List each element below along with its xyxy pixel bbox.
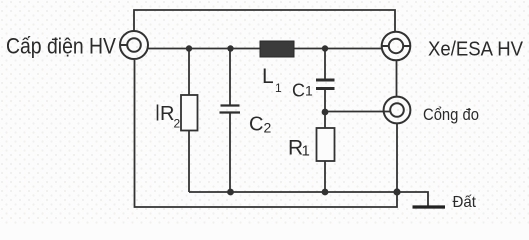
capacitor C1 xyxy=(316,80,335,89)
resistor R2 xyxy=(181,95,198,131)
wire R2 bottom vertical xyxy=(188,131,190,193)
wire C1 branch vertical xyxy=(324,49,326,80)
capacitor C2 xyxy=(220,106,241,113)
svg-text:1: 1 xyxy=(275,81,282,95)
junction node on main wire at C1 xyxy=(322,45,328,51)
wire bottom rail xyxy=(189,192,428,206)
svg-text:R: R xyxy=(160,103,174,125)
wire C1 to node vertical xyxy=(324,90,326,128)
resistor R1 xyxy=(317,128,335,161)
wire main horizontal xyxy=(149,48,382,50)
svg-text:Đất: Đất xyxy=(453,194,477,211)
connector J2 Xe/ESA HV xyxy=(382,32,411,61)
svg-text:Cấp điện HV: Cấp điện HV xyxy=(6,34,116,59)
label R1 xyxy=(288,137,310,160)
svg-text:Cổng đo: Cổng đo xyxy=(423,105,479,124)
junction node on main wire at R2 xyxy=(186,45,192,51)
wire outer ground return xyxy=(135,60,398,207)
svg-text:Xe/ESA HV: Xe/ESA HV xyxy=(428,39,524,61)
inductor L1 xyxy=(260,41,294,57)
svg-text:1: 1 xyxy=(305,83,313,99)
label L1 xyxy=(262,65,282,95)
wire R1 bottom vertical xyxy=(324,161,326,192)
svg-text:C: C xyxy=(292,81,305,101)
junction node bottom rail at port xyxy=(393,188,400,195)
svg-text:1: 1 xyxy=(302,143,310,160)
label R2 xyxy=(158,103,181,131)
label C2 xyxy=(249,114,272,136)
wire between connectors vertical xyxy=(396,61,398,97)
connector J3 Cong do xyxy=(384,97,411,124)
wire top rail xyxy=(134,10,395,32)
svg-text:C: C xyxy=(249,114,263,136)
junction node bottom rail at R1 xyxy=(322,189,329,196)
junction node on main wire at C2 xyxy=(227,45,233,51)
wire C2 bottom vertical xyxy=(229,113,231,192)
wire measuring port down vertical xyxy=(396,124,398,193)
connector J1 Cap dien HV xyxy=(120,31,148,59)
svg-text:L: L xyxy=(262,65,274,88)
svg-text:2: 2 xyxy=(264,120,272,136)
junction node bottom rail at C2 xyxy=(227,189,234,196)
wire R2 branch vertical xyxy=(188,49,190,96)
junction node C1-R1-port xyxy=(322,109,329,116)
svg-text:2: 2 xyxy=(174,117,181,131)
ground symbol xyxy=(413,205,446,208)
label C1 xyxy=(292,81,313,101)
wire node to measuring port horizontal xyxy=(325,111,390,113)
wire C2 branch vertical xyxy=(229,49,231,105)
